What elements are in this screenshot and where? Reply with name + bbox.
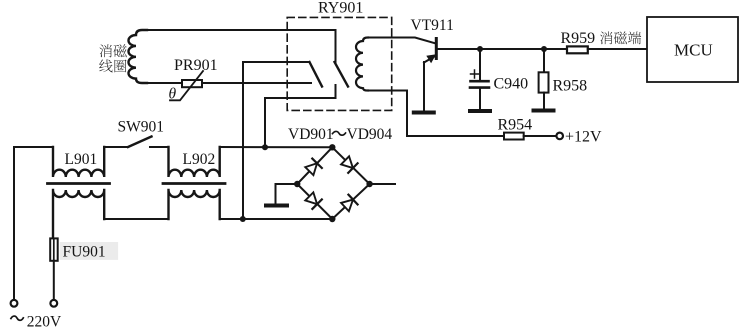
- svg-text:L901: L901: [65, 151, 98, 168]
- node: bridge right: [366, 181, 372, 187]
- ground (R958): [534, 109, 554, 113]
- relay contact blade 1: [310, 62, 323, 87]
- svg-text:+12V: +12V: [565, 129, 602, 146]
- svg-text:R959: R959: [561, 30, 596, 47]
- label 线圈 (degaussing coil) line 2: [99, 59, 126, 72]
- wire: fuse to AC terminal: [53, 261, 55, 300]
- node: base bus / C940: [477, 46, 483, 52]
- inductor L902: [163, 147, 225, 219]
- label ~ (AC) symbol: [11, 316, 24, 320]
- svg-text:VD904: VD904: [347, 126, 393, 143]
- terminal ~220V right: [50, 300, 57, 307]
- svg-text:R958: R958: [553, 78, 588, 95]
- wire: left AC line riser and top bus: [14, 147, 53, 300]
- terminal +12V: [556, 133, 563, 140]
- relay RY901 dashed enclosure: [287, 17, 392, 110]
- wire: relay contact 2 moving terminal to top bus junction: [265, 85, 336, 147]
- svg-text:θ: θ: [169, 86, 177, 103]
- label 消磁 (degaussing coil) line 1: [99, 44, 126, 57]
- node dots: [240, 46, 547, 222]
- node: bridge bottom: [329, 216, 335, 222]
- transistor VT911: [424, 39, 436, 111]
- wire: bridge right node stub: [370, 183, 395, 185]
- wire: relay coil bottom to +12V rail: [367, 91, 504, 137]
- node: top bus / relay return junction: [262, 144, 268, 150]
- ground (C940): [470, 109, 490, 113]
- wire: R959 to MCU: [588, 48, 647, 50]
- diode VD902 (top node to right node): [340, 156, 357, 173]
- wire: R954 to +12V terminal: [524, 135, 557, 137]
- svg-text:RY901: RY901: [318, 0, 363, 17]
- resistor R954: [504, 133, 524, 140]
- terminal ~220V left: [11, 300, 18, 307]
- wire: VT911 base bus to R959: [438, 48, 568, 50]
- wire: bridge left node to ground: [276, 184, 298, 203]
- wire: L901 to L902 bottom link: [104, 218, 168, 220]
- wire: PR901 to relay contact 1 fixed: [202, 82, 311, 84]
- thermistor PR901: [170, 71, 203, 100]
- degaussing coil (消磁线圈): [128, 30, 147, 83]
- svg-text:L902: L902: [183, 151, 216, 168]
- svg-text:R954: R954: [498, 116, 533, 133]
- bridge rectifier VD901~VD904 edges: [297, 147, 369, 219]
- capacitor C940 (electrolytic): [470, 49, 489, 109]
- svg-text:220V: 220V: [27, 314, 62, 328]
- fuse FU901: [50, 238, 118, 260]
- svg-text:FU901: FU901: [63, 244, 106, 261]
- label 消磁端 (degauss terminal): [600, 31, 641, 44]
- resistor R958: [539, 49, 549, 109]
- relay contact 2 fixed lead: [335, 30, 337, 62]
- switch SW901: [104, 137, 168, 148]
- node: bridge top: [329, 144, 335, 150]
- diode VD904 (bottom node to right node): [340, 195, 357, 212]
- svg-text:SW901: SW901: [118, 119, 165, 136]
- resistor R959: [567, 46, 588, 53]
- svg-text:VD901: VD901: [288, 126, 334, 143]
- svg-text:PR901: PR901: [174, 57, 218, 74]
- relay contact blade 2: [335, 62, 349, 87]
- node: bridge left: [294, 181, 300, 187]
- MCU box: [647, 17, 738, 82]
- ground (VT911 emitter): [414, 111, 434, 115]
- wire: bottom AC bus L902 to bridge bottom node: [220, 218, 333, 220]
- diode VD901 (left node to top node): [305, 159, 322, 176]
- wire top bus: coil top to relay contact 2: [146, 29, 336, 31]
- wire: relay coil top to VT911 collector: [367, 38, 436, 44]
- relay coil: [356, 38, 368, 91]
- wire: coil bottom to PR901: [146, 82, 182, 84]
- wire: riser from relay contact 1 down to bottom AC bus: [243, 62, 310, 219]
- svg-text:VT911: VT911: [411, 17, 454, 34]
- diode VD903 (left node to bottom node): [305, 192, 322, 209]
- wire: top AC bus L902 to bridge top node: [220, 146, 333, 148]
- ground (bridge left node): [266, 204, 287, 208]
- svg-text:C940: C940: [494, 76, 529, 93]
- node: base bus / R958: [541, 46, 547, 52]
- inductor L901: [48, 147, 110, 238]
- node: bottom bus / contact riser junction: [240, 216, 246, 222]
- svg-text:MCU: MCU: [674, 41, 713, 60]
